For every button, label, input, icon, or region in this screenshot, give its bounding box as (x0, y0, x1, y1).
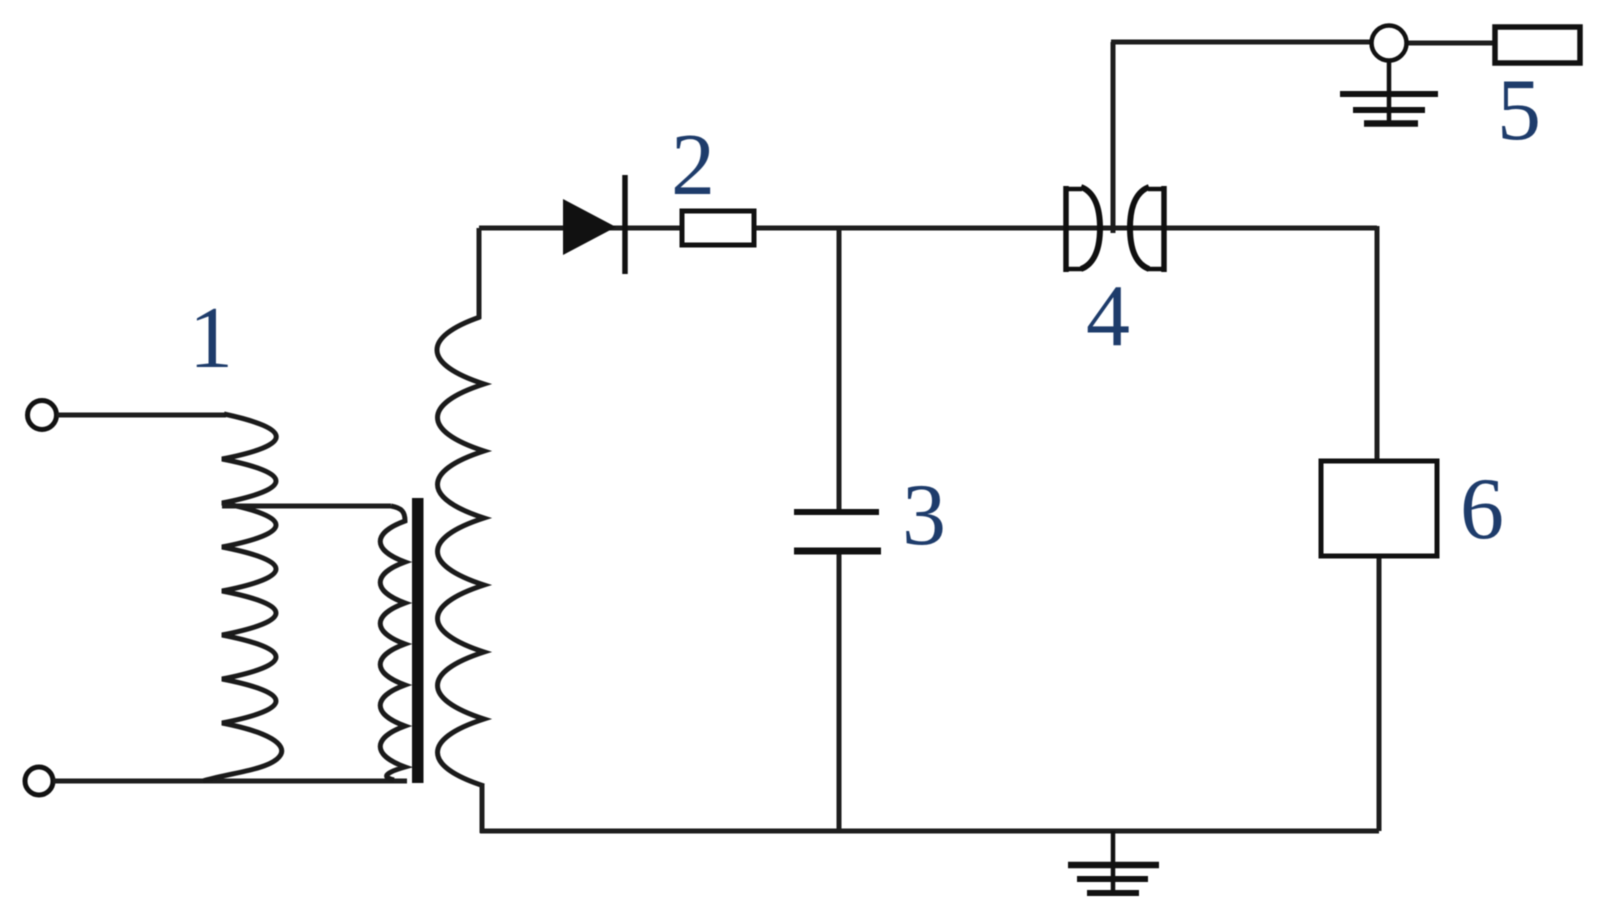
spark gap 4 left electrode (1064, 186, 1100, 272)
bottom rail wire (480, 829, 1379, 834)
resistor 2 (682, 211, 754, 245)
input terminal top (28, 401, 57, 430)
tap wire from winding 1 to primary (222, 504, 391, 509)
transformer primary winding (380, 506, 405, 780)
wire capacitor lower (837, 552, 842, 831)
svg-text:5: 5 (1497, 62, 1541, 159)
trigger vertical wire (1111, 42, 1116, 233)
wire capacitor upper (837, 228, 842, 511)
terminal circle of trigger unit (1372, 26, 1407, 61)
svg-text:6: 6 (1460, 461, 1504, 558)
capacitor 3 (794, 512, 881, 551)
wire right rail upper (1375, 226, 1380, 461)
wire secondary top to node (477, 228, 482, 319)
wire secondary bottom down (480, 784, 485, 833)
trigger unit box 5 (1495, 27, 1580, 63)
wire top input to winding 1 (57, 413, 227, 418)
svg-text:4: 4 (1086, 268, 1130, 365)
trigger top wire (1111, 40, 1371, 45)
top rail wire (479, 226, 1377, 231)
svg-text:1: 1 (189, 290, 233, 387)
spark gap 4 right electrode (1130, 186, 1166, 272)
autotransformer winding 1 (203, 414, 282, 781)
ground under trigger terminal (1340, 60, 1438, 126)
wire terminal to box 5 (1406, 41, 1497, 46)
input terminal bottom (25, 767, 53, 795)
svg-text:3: 3 (902, 467, 946, 564)
wire right rail lower (1377, 556, 1382, 831)
svg-text:2: 2 (671, 117, 715, 214)
wire bottom input to transformer (53, 779, 407, 784)
diode (563, 175, 625, 274)
transformer core (412, 498, 424, 783)
bottom ground (1068, 831, 1159, 896)
load box 6 (1321, 461, 1437, 556)
transformer secondary winding (437, 317, 484, 786)
